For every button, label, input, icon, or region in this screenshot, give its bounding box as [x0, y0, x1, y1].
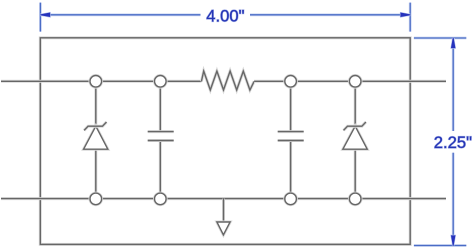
- wire: branch 3 upper: [289, 81, 292, 131]
- dimension 4.00 inch horizontal: [40, 3, 410, 32]
- capacitor C2: [278, 132, 304, 141]
- ground: [217, 222, 230, 235]
- wire: branch 2 lower: [159, 141, 162, 199]
- junction pad bottom 1: [90, 193, 102, 205]
- wire: branch 1 lower: [94, 149, 97, 198]
- wire: branch 1 upper: [94, 81, 97, 126]
- zener diode D1: [84, 122, 108, 149]
- wire: top bus left segment: [1, 80, 201, 83]
- dimension label 2.25": [434, 133, 472, 152]
- wire: branch 4 upper: [354, 81, 357, 126]
- junction pad top 4: [349, 76, 361, 88]
- wire: branch 3 lower: [289, 141, 292, 199]
- wire: branch 2 upper: [159, 81, 162, 131]
- board outline: [40, 38, 410, 245]
- wire: ground stub: [222, 199, 225, 223]
- wire: branch 4 lower: [354, 149, 357, 198]
- svg-text:4.00": 4.00": [206, 6, 244, 25]
- dimension 2.25 inch vertical: [414, 38, 466, 246]
- svg-text:2.25": 2.25": [434, 133, 472, 152]
- junction pad top 1: [90, 76, 102, 88]
- wire: top bus right segment: [254, 80, 446, 83]
- zener diode D2: [343, 122, 367, 149]
- capacitor C1: [148, 132, 174, 141]
- resistor R1: [201, 71, 254, 90]
- wire: bottom bus: [1, 197, 446, 200]
- junction pad bottom 4: [349, 193, 361, 205]
- junction pad top 2: [155, 76, 167, 88]
- junction pad top 3: [285, 76, 297, 88]
- junction pad bottom 2: [155, 193, 167, 205]
- junction pad bottom 3: [285, 193, 297, 205]
- dimension label 4.00": [206, 6, 244, 25]
